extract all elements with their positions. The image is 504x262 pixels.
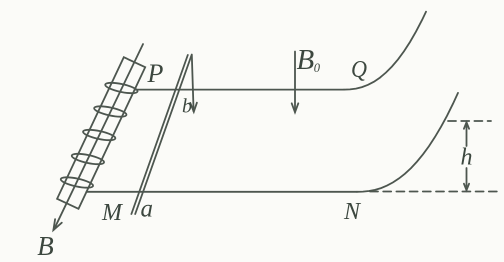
- svg-text:B: B: [297, 44, 315, 76]
- dashed ground level line: [370, 191, 497, 193]
- coil winding turn 3: [82, 128, 116, 143]
- svg-text:a: a: [141, 196, 154, 223]
- svg-text:N: N: [343, 199, 362, 225]
- coil winding turn 5: [60, 175, 94, 190]
- wire: bottom curved ramp to height h: [357, 93, 458, 192]
- rod ab (double line): [131, 55, 187, 214]
- coil winding turn 4: [71, 152, 105, 167]
- coil winding turn 2: [93, 104, 127, 119]
- coil winding turn 1: [104, 81, 138, 96]
- coil tube body: [57, 57, 145, 209]
- svg-text:P: P: [147, 59, 164, 88]
- svg-text:M: M: [101, 200, 124, 226]
- svg-text:B: B: [37, 231, 54, 261]
- dimension line for h with arrows: [466, 123, 468, 147]
- svg-text:h: h: [461, 145, 473, 171]
- coil axis arrowhead (B direction): [53, 226, 55, 230]
- wire: top curved ramp after Q: [344, 12, 426, 90]
- arrow B0 field direction: [294, 52, 296, 113]
- svg-text:b: b: [182, 96, 192, 118]
- coil axis line: [56, 44, 143, 226]
- svg-text:0: 0: [314, 61, 321, 75]
- svg-text:Q: Q: [351, 57, 367, 83]
- wire: bottom rail M to N: [87, 191, 358, 193]
- wire: top rail P to Q: [135, 89, 344, 91]
- dashed height level line: [448, 120, 491, 122]
- arrow at rod top near b: [192, 55, 194, 112]
